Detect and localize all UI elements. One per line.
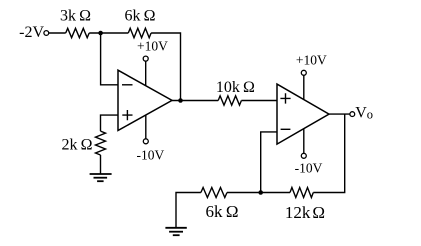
input terminal (44, 31, 49, 36)
U2 positive supply terminal (301, 70, 306, 75)
node B output junction dot (178, 98, 183, 103)
resistor 3k ohm (66, 28, 90, 37)
ground G1 (90, 174, 112, 181)
wire: R1 to R2 through node A (89, 32, 128, 34)
resistor 6k ohm feedback (128, 28, 151, 37)
op-amp U2 (277, 84, 329, 144)
wire: U2 inverting input to node C (261, 132, 277, 193)
resistor 10k ohm (218, 96, 241, 105)
U1 positive supply terminal (143, 56, 148, 61)
svg-text:2k Ω: 2k Ω (61, 137, 92, 154)
wire: R5 to node C (227, 192, 290, 194)
wire: U1 noninverting input (101, 115, 119, 131)
wire: U1 output to R3 (172, 100, 218, 102)
node A junction dot (98, 31, 103, 36)
resistor 2k ohm (96, 131, 106, 155)
svg-text:10k Ω: 10k Ω (216, 79, 255, 96)
U1 negative supply wire (145, 115, 147, 139)
U1 plus symbol (122, 110, 132, 120)
U1 positive supply wire (145, 61, 147, 86)
wire: R4 to ground (100, 155, 102, 174)
U1 minus symbol (122, 84, 133, 86)
U2 plus symbol (280, 93, 290, 103)
svg-text:6k Ω: 6k Ω (205, 202, 238, 221)
U2 negative supply terminal (301, 153, 306, 158)
wire: ground G2 up to R5 (176, 193, 201, 228)
wire: terminal to R1 (49, 32, 66, 34)
op-amp U1 (118, 70, 172, 130)
svg-text:-10V: -10V (295, 160, 323, 175)
wire: U2 output to Vo terminal (329, 113, 350, 115)
node C junction dot (258, 190, 263, 195)
svg-text:6k Ω: 6k Ω (124, 8, 155, 25)
wire: R2 to top-right corner (151, 33, 180, 101)
svg-text:-10V: -10V (137, 148, 165, 163)
U2 positive supply wire (303, 75, 305, 99)
output terminal Vo (350, 112, 355, 117)
wire: R3 to U2 noninverting input (241, 100, 277, 102)
U1 negative supply terminal (143, 139, 148, 144)
U2 negative supply wire (303, 129, 305, 154)
svg-text:+10V: +10V (137, 39, 168, 54)
svg-text:Vo: Vo (355, 105, 373, 122)
resistor 6k ohm bottom (201, 188, 227, 198)
svg-text:12kΩ: 12kΩ (285, 203, 325, 222)
svg-text:3k Ω: 3k Ω (60, 8, 91, 25)
wire: feedback from output down to R6 (313, 114, 344, 192)
svg-text:-2V: -2V (19, 24, 44, 41)
wire: node A down to inverting input (101, 33, 118, 85)
resistor 12k ohm (290, 188, 313, 198)
ground G2 (165, 228, 186, 235)
svg-text:+10V: +10V (296, 52, 327, 67)
U2 minus symbol (281, 128, 291, 130)
